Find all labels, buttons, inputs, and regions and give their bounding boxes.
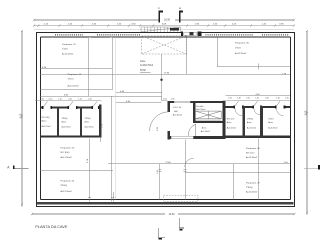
svg-text:A=4.60m2: A=4.60m2 bbox=[173, 113, 183, 116]
central block top wall bbox=[167, 101, 225, 103]
svg-text:16.00: 16.00 bbox=[164, 19, 171, 22]
svg-text:2ºESQ: 2ºESQ bbox=[85, 117, 92, 120]
top third dim line bbox=[34, 28, 294, 30]
openings bbox=[235, 106, 242, 109]
door leaves left rooms bbox=[44, 102, 98, 107]
lower column line bbox=[110, 96, 112, 202]
svg-text:Hall: Hall bbox=[174, 111, 178, 113]
column dot bbox=[160, 79, 162, 81]
bottom dim line 16.00 bbox=[32, 213, 165, 215]
svg-text:Parqueam. 04: Parqueam. 04 bbox=[61, 179, 76, 182]
openings in top wall bbox=[44, 106, 51, 109]
svg-text:Arrec.: Arrec. bbox=[42, 120, 48, 123]
entrance stair treads top center bbox=[141, 27, 181, 32]
horizontal line y=89.5 bbox=[40, 89, 112, 91]
svg-text:A=2.85m2: A=2.85m2 bbox=[85, 126, 95, 129]
door leaves right rooms bbox=[235, 101, 280, 106]
svg-text:1.00: 1.00 bbox=[88, 99, 92, 101]
svg-text:1ºESQ: 1ºESQ bbox=[62, 117, 69, 120]
parking divider line P03/P04 bbox=[40, 169, 113, 171]
light grid line x=115.9 bbox=[115, 37, 117, 199]
svg-text:A=3.20m2: A=3.20m2 bbox=[227, 127, 237, 130]
svg-text:Arrec.: Arrec. bbox=[62, 121, 68, 124]
svg-text:1.10: 1.10 bbox=[58, 99, 62, 101]
svg-text:Cave: Cave bbox=[140, 61, 146, 63]
svg-text:A=3.20m2: A=3.20m2 bbox=[268, 127, 278, 130]
tick marks bbox=[88, 36, 91, 38]
svg-text:A=12.50m2: A=12.50m2 bbox=[61, 156, 73, 159]
svg-text:R/C DtO: R/C DtO bbox=[246, 152, 255, 155]
parking divider x=233 bottom bbox=[232, 164, 234, 200]
interior dim line 17.80 upper bbox=[40, 73, 290, 75]
shaft right wall line bbox=[186, 36, 188, 74]
left rooms bottom wall bbox=[41, 136, 102, 138]
left rooms dim row bbox=[35, 100, 102, 102]
recolha/arrec wall bbox=[195, 121, 222, 123]
svg-text:9.05: 9.05 bbox=[20, 113, 22, 118]
left vertical dim line bbox=[21, 31, 23, 207]
right rooms top wall bbox=[226, 106, 290, 108]
svg-text:1.10: 1.10 bbox=[78, 99, 82, 101]
parking width line 4.80 a bbox=[116, 92, 162, 94]
recolha labels bbox=[196, 106, 206, 111]
cave label bbox=[140, 61, 154, 67]
section marker A right bbox=[304, 165, 320, 169]
svg-text:A=12.50m2: A=12.50m2 bbox=[246, 191, 258, 194]
svg-text:0.10: 0.10 bbox=[68, 99, 72, 101]
svg-text:1ºESQ: 1ºESQ bbox=[246, 186, 253, 189]
arrec labels bbox=[201, 126, 211, 133]
svg-text:Parqueam. 02: Parqueam. 02 bbox=[68, 73, 83, 76]
left rooms divider wall 1 bbox=[57, 107, 59, 138]
column line x=89.5 top bbox=[88, 37, 90, 96]
top overall dim line 16.00 bbox=[34, 19, 160, 21]
svg-text:A=3.10m2: A=3.10m2 bbox=[247, 127, 257, 130]
svg-text:1.40: 1.40 bbox=[237, 97, 241, 99]
svg-text:Arrec.: Arrec. bbox=[247, 121, 253, 124]
top dim labels row2 bbox=[44, 23, 285, 25]
central block bottom wall bbox=[167, 136, 225, 139]
svg-text:Recolha: Recolha bbox=[196, 106, 204, 108]
bottom wall opening bbox=[171, 136, 193, 140]
svg-text:1ºDtO: 1ºDtO bbox=[68, 77, 74, 80]
svg-text:1.40: 1.40 bbox=[285, 97, 289, 99]
door dark leaf segment bbox=[190, 32, 194, 36]
svg-text:0.10: 0.10 bbox=[265, 97, 269, 99]
dashed rect bottom ramp bbox=[164, 195, 199, 201]
central block dim row bbox=[162, 99, 168, 101]
svg-text:Arrec.: Arrec. bbox=[85, 121, 91, 124]
left room labels bbox=[42, 117, 95, 129]
right room labels bbox=[227, 118, 279, 130]
hall labels bbox=[173, 107, 183, 116]
svg-text:2ºDtO: 2ºDtO bbox=[268, 118, 274, 121]
right rooms bottom wall bbox=[226, 136, 290, 139]
svg-text:1.40: 1.40 bbox=[276, 97, 280, 99]
parking width line 4.80 b bbox=[40, 95, 161, 97]
svg-text:1ºDtO: 1ºDtO bbox=[62, 48, 68, 51]
top wall opening hall bbox=[174, 101, 190, 104]
top wall door opening and leaf bbox=[183, 32, 198, 36]
svg-text:A=15.25m2: A=15.25m2 bbox=[68, 84, 80, 87]
dim ticks bbox=[21, 19, 308, 215]
svg-text:Parqueam. 05: Parqueam. 05 bbox=[235, 42, 250, 45]
stair dark landing bar bbox=[170, 28, 179, 31]
svg-text:R/C DtO: R/C DtO bbox=[227, 118, 235, 121]
interior dim line 17.80 lower bbox=[108, 163, 291, 165]
svg-text:Parqueam. 01: Parqueam. 01 bbox=[62, 43, 77, 46]
svg-text:2ºDtO: 2ºDtO bbox=[235, 46, 241, 49]
dimension lines group bbox=[22, 20, 307, 215]
svg-text:R/C ESQ: R/C ESQ bbox=[61, 152, 70, 154]
right rooms divider wall 1 bbox=[242, 106, 245, 138]
outer wall bbox=[37, 33, 295, 207]
svg-text:Parqueam. 06: Parqueam. 06 bbox=[246, 147, 261, 150]
hall/recolha divider wall bbox=[193, 102, 195, 123]
jambs dark bbox=[234, 106, 236, 109]
door jamb left bbox=[181, 32, 183, 36]
short line x=113 bottom bbox=[112, 192, 114, 202]
interior thin lines bbox=[40, 37, 290, 201]
svg-text:16.00: 16.00 bbox=[169, 213, 176, 216]
bench mark symbol 2 bbox=[179, 218, 184, 231]
hall door arc bbox=[150, 112, 169, 131]
svg-text:38.50: 38.50 bbox=[140, 70, 146, 72]
parking divider x=258.5 bottom bbox=[258, 139, 260, 200]
svg-text:Arrec.: Arrec. bbox=[268, 121, 274, 124]
svg-text:2ºESQ: 2ºESQ bbox=[61, 184, 68, 187]
parqueam labels bbox=[61, 42, 261, 194]
column line x=111.5 full bbox=[111, 37, 113, 89]
section flag P1 top left of stair bbox=[158, 8, 163, 23]
central block right wall bbox=[223, 101, 226, 139]
svg-text:A=12.50m2: A=12.50m2 bbox=[62, 53, 74, 56]
svg-text:Parqueam. 07: Parqueam. 07 bbox=[246, 182, 261, 185]
svg-text:0.10: 0.10 bbox=[246, 97, 250, 99]
svg-text:PLANTA DA CAVE: PLANTA DA CAVE bbox=[35, 224, 68, 229]
svg-text:A=0.98m2: A=0.98m2 bbox=[196, 108, 206, 111]
right rooms divider wall 2 bbox=[260, 106, 263, 138]
section marker A left bbox=[7, 165, 28, 169]
svg-text:2.05: 2.05 bbox=[163, 99, 167, 101]
parking divider x=183 bottom bbox=[184, 140, 186, 200]
room3 wall stub below bbox=[100, 138, 102, 143]
right rooms door arcs bbox=[235, 109, 284, 116]
door jambs left rooms bbox=[42, 106, 99, 109]
right rooms width line 4.60 bbox=[226, 95, 290, 97]
top wall vent dots bbox=[55, 34, 289, 36]
parqueam05 bottom edge y=66.5 bbox=[217, 66, 290, 68]
parking divider line P06/P07 bbox=[185, 171, 291, 173]
svg-text:1ºESQ: 1ºESQ bbox=[247, 118, 254, 121]
svg-text:1.40: 1.40 bbox=[255, 97, 259, 99]
svg-text:2.10: 2.10 bbox=[228, 97, 232, 99]
svg-text:17.80: 17.80 bbox=[164, 72, 170, 74]
leader curve near arrec bbox=[185, 158, 194, 167]
bottom wall thick band bbox=[37, 202, 294, 204]
column line x=89.5 bottom bbox=[89, 139, 91, 202]
right rooms dim row bbox=[222, 99, 289, 101]
svg-text:A=2.05m2: A=2.05m2 bbox=[201, 130, 211, 133]
svg-text:Arrec.: Arrec. bbox=[227, 121, 233, 124]
arrec door arc bbox=[188, 124, 195, 136]
column line x=161.5 bbox=[161, 54, 163, 101]
stair shaft dashed box with X bbox=[142, 36, 187, 54]
interior dim labels bbox=[42, 67, 288, 164]
svg-text:1.00: 1.00 bbox=[171, 99, 175, 101]
left rooms divider wall 2 bbox=[80, 107, 82, 138]
bench mark symbol 1 bbox=[158, 228, 165, 240]
section flag P2 top right of stair bbox=[179, 8, 183, 23]
svg-text:A=12.45m2: A=12.45m2 bbox=[246, 156, 258, 159]
svg-text:Arrec.: Arrec. bbox=[202, 126, 208, 129]
svg-text:0.10: 0.10 bbox=[49, 99, 53, 101]
right vertical dim line bbox=[306, 31, 308, 215]
parqueam05 left edge x=217 bbox=[216, 37, 218, 66]
svg-text:A=163.70m2: A=163.70m2 bbox=[140, 64, 154, 67]
svg-text:A=2.90m2: A=2.90m2 bbox=[62, 126, 72, 129]
left rooms right wall bbox=[99, 105, 101, 138]
svg-text:A=12.50m2: A=12.50m2 bbox=[235, 52, 247, 55]
svg-text:A=2.95m2: A=2.95m2 bbox=[42, 125, 52, 128]
svg-text:9.05: 9.05 bbox=[305, 110, 307, 115]
svg-text:2.05 1.30: 2.05 1.30 bbox=[173, 107, 182, 109]
svg-text:A=12.50m2: A=12.50m2 bbox=[61, 190, 73, 193]
left rooms top wall bbox=[41, 107, 102, 109]
parking divider x=159.8 bottom bbox=[159, 164, 161, 200]
svg-text:R/C ESQ: R/C ESQ bbox=[42, 117, 51, 119]
recolha stair box with X bbox=[195, 111, 221, 120]
door jamb right / pier bbox=[198, 32, 202, 36]
parking width line 4.80 c bbox=[116, 102, 162, 104]
top segmented dim line bbox=[34, 25, 294, 27]
svg-text:Parqueam. 03: Parqueam. 03 bbox=[61, 147, 76, 150]
inner wall lines bbox=[41, 37, 291, 199]
svg-text:1.00: 1.00 bbox=[40, 99, 44, 101]
parking divider line P01/P02 bbox=[40, 68, 112, 70]
svg-text:17.80: 17.80 bbox=[165, 162, 171, 164]
central block left wall bbox=[167, 101, 170, 112]
